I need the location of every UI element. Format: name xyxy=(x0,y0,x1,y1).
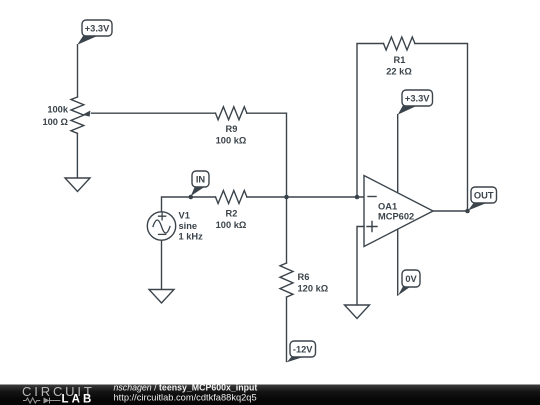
svg-text:nschagen / teensy_MCP600x_inpu: nschagen / teensy_MCP600x_input xyxy=(114,383,258,393)
net flag +3.3V (potentiometer supply) xyxy=(77,20,112,45)
wire op-amp non-inverting input to ground xyxy=(357,227,364,306)
svg-text:1 kHz: 1 kHz xyxy=(179,232,204,242)
svg-text:100 kΩ: 100 kΩ xyxy=(216,136,247,146)
svg-text:-12V: -12V xyxy=(293,345,313,355)
net flag +3.3V (op-amp supply) xyxy=(398,90,433,115)
wire V1 top to R2 xyxy=(162,197,216,212)
svg-text:0V: 0V xyxy=(405,274,417,284)
net flag 0V xyxy=(398,270,420,295)
resistor R9 xyxy=(216,107,247,146)
CircuitLab logo schematic squiggle (resistor + diode) xyxy=(23,398,61,404)
svg-text:100k: 100k xyxy=(47,104,69,114)
svg-text:+3.3V: +3.3V xyxy=(85,24,110,34)
svg-text:MCP602: MCP602 xyxy=(378,212,414,222)
svg-text:IN: IN xyxy=(196,175,206,185)
net flag -12V xyxy=(287,341,316,362)
svg-text:sine: sine xyxy=(179,221,198,231)
svg-text:R6: R6 xyxy=(298,272,310,282)
wire op-amp output xyxy=(433,210,468,212)
wire R2 to center junction xyxy=(247,196,287,198)
wire junction down to R6 xyxy=(286,197,288,263)
resistor R1 xyxy=(384,37,415,77)
ground (below potentiometer) xyxy=(65,178,90,192)
wire potentiometer to ground xyxy=(76,133,78,178)
wire feedback right vertical to output xyxy=(415,44,468,212)
wire feedback left vertical xyxy=(357,44,384,198)
potentiometer 100k / 100 Ω xyxy=(42,97,90,133)
svg-text:22 kΩ: 22 kΩ xyxy=(386,67,412,77)
svg-text:R9: R9 xyxy=(226,124,238,134)
voltage source V1 sine 1 kHz xyxy=(147,210,203,241)
wire op-amp V- pin to 0V flag xyxy=(397,229,399,295)
net flag OUT xyxy=(468,187,497,211)
ground (below V1) xyxy=(149,290,174,304)
wire +3.3V flag to potentiometer xyxy=(77,45,79,97)
wire V1 to ground xyxy=(161,240,163,289)
wire wiper to R9 xyxy=(92,112,216,114)
svg-text:V1: V1 xyxy=(179,210,190,220)
wire R9 to center junction (right then down) xyxy=(247,113,287,197)
wire R6 to -12V flag xyxy=(286,297,288,361)
svg-text:120 kΩ: 120 kΩ xyxy=(298,284,329,294)
svg-text:http://circuitlab.com/cdtkfa88: http://circuitlab.com/cdtkfa88kq2q5 xyxy=(114,393,257,403)
svg-text:OUT: OUT xyxy=(474,191,494,201)
svg-text:100 Ω: 100 Ω xyxy=(42,117,68,127)
wire +3.3V to op-amp V+ pin xyxy=(397,115,399,193)
resistor R2 xyxy=(216,191,247,231)
svg-text:R2: R2 xyxy=(226,209,238,219)
svg-text:100 kΩ: 100 kΩ xyxy=(216,220,247,230)
ground (below op-amp) xyxy=(345,305,370,319)
footer bar xyxy=(0,385,540,405)
junction node feedback left xyxy=(355,195,360,200)
junction node IN xyxy=(189,195,194,200)
resistor R6 xyxy=(280,263,329,297)
svg-text:+3.3V: +3.3V xyxy=(405,94,430,104)
svg-text:OA1: OA1 xyxy=(378,202,397,212)
op-amp OA1 MCP602 xyxy=(364,176,433,247)
net flag IN xyxy=(191,171,209,196)
junction node output xyxy=(465,209,470,214)
junction node center (R9/R2/R6/op-amp) xyxy=(284,195,289,200)
wire junction to op-amp inverting input xyxy=(287,196,365,198)
svg-text:LAB: LAB xyxy=(62,394,95,405)
svg-text:R1: R1 xyxy=(394,55,406,65)
